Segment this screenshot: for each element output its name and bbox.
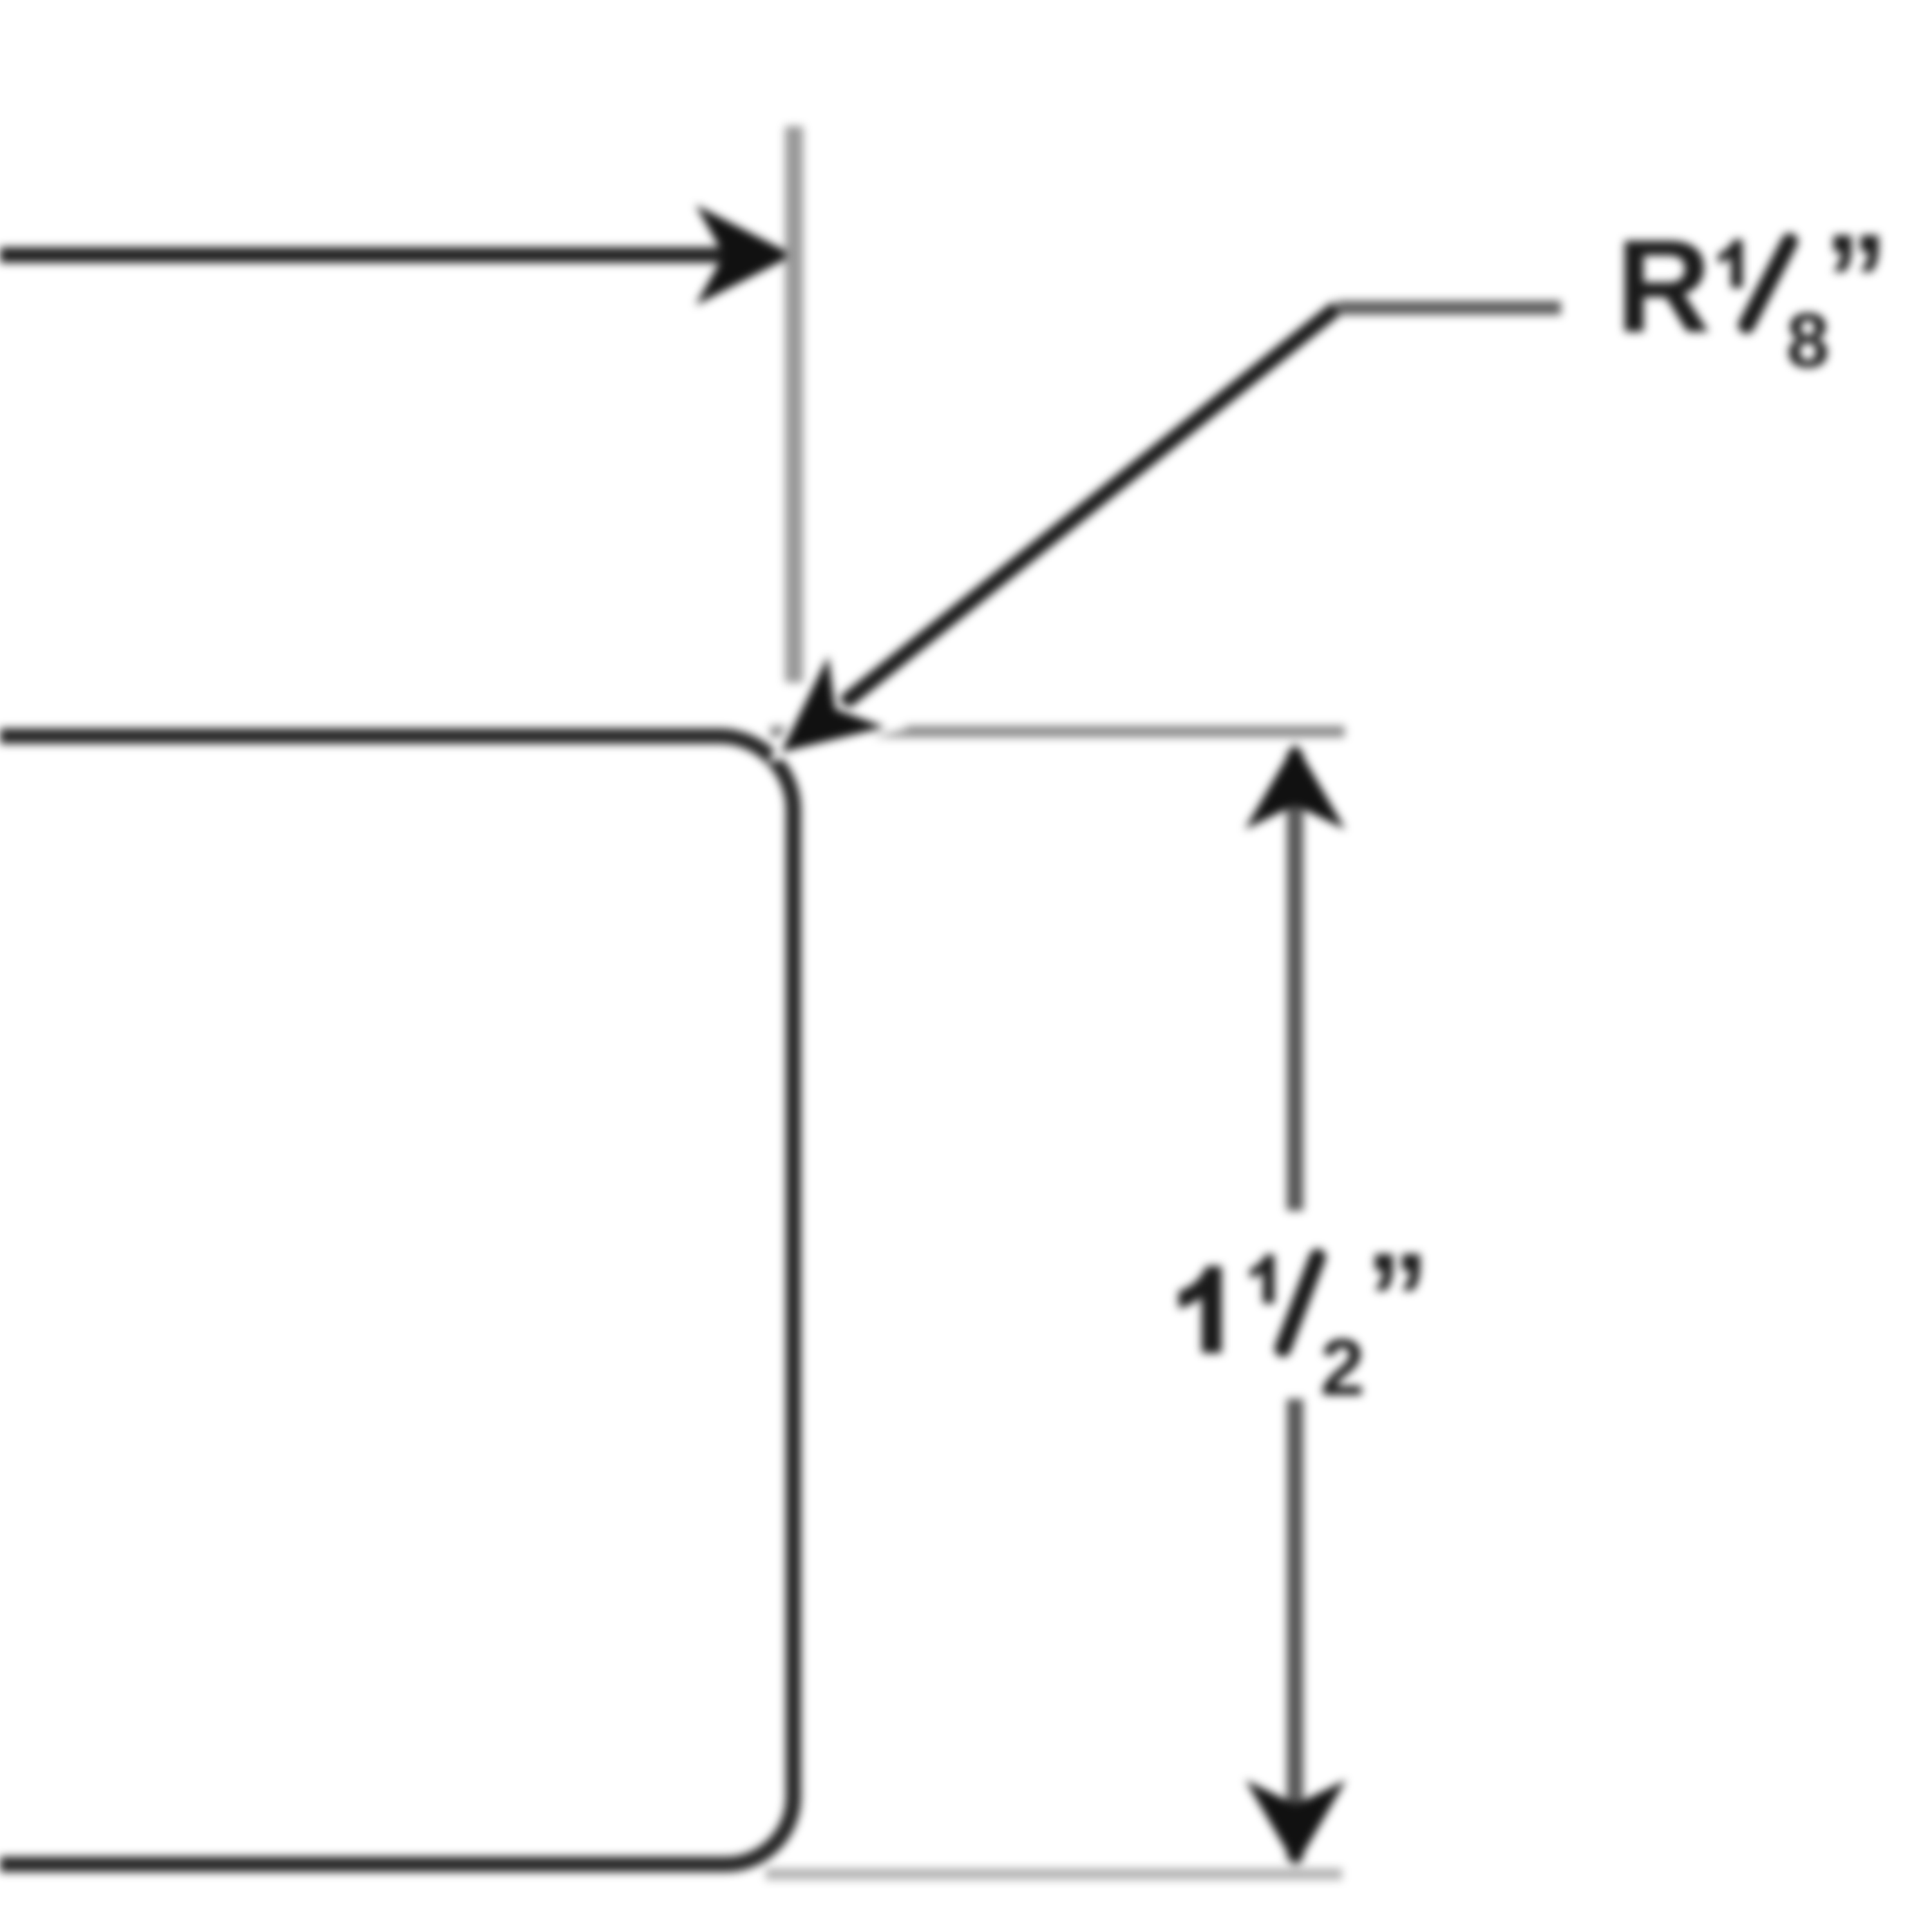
svg-text:2: 2 [1320, 1323, 1365, 1412]
arrowhead: down barbed head [1245, 1780, 1346, 1866]
wire: vertical dimension line upper segment [1287, 750, 1303, 1211]
arrowhead: right-pointing barbed head at extension line [696, 205, 793, 305]
svg-text:”: ” [1365, 1227, 1430, 1370]
wire: vertical dimension line lower segment [1287, 1399, 1303, 1861]
svg-text:8: 8 [1786, 298, 1830, 384]
extension line: horizontal light grey (bottom of 1 1/2 dimension) [766, 1868, 1342, 1880]
profile: moulding cross-section with rounded right corners [0, 736, 793, 1864]
wire: horizontal dimension arrow line (top left) [0, 247, 741, 263]
svg-text:”: ” [1824, 208, 1888, 352]
leader: horizontal segment near label [1337, 301, 1561, 315]
svg-text:R: R [1616, 213, 1711, 360]
extension line: vertical grey (right side of profile, top) [785, 126, 803, 683]
arrowhead: up barbed head [1245, 743, 1345, 829]
leader: diagonal line from R1/8 label to corner [840, 308, 1337, 706]
arrowhead: leader barbed head pointing at corner [781, 656, 885, 752]
label: 1 1/2 inch dimension [1179, 1266, 1222, 1353]
extension line: horizontal grey (top of 1 1/2 dimension) [770, 726, 1345, 737]
